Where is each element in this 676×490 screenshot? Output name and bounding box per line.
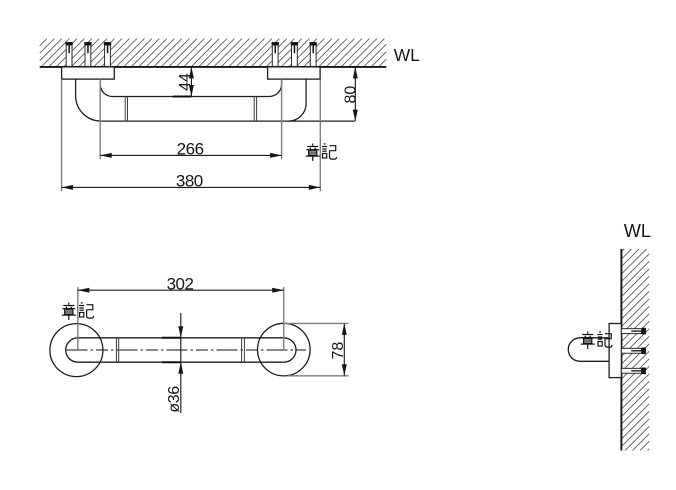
dimension 80 <box>342 67 359 121</box>
svg-text:302: 302 <box>167 274 194 293</box>
left outer edge + bend <box>76 79 102 121</box>
centerline <box>67 349 307 351</box>
tube (front view, capsule) <box>66 338 296 362</box>
right inner edge + bend <box>269 79 281 96</box>
dimension 44 <box>177 67 194 97</box>
joint ticks left <box>125 97 127 122</box>
grab bar tube outline (top view) <box>76 79 355 121</box>
left inner edge + bend <box>100 79 112 96</box>
bottom edge with 80-dim extension <box>101 120 355 122</box>
dimension 380 <box>62 79 321 191</box>
brand text: zhang-ji (drawing 3) <box>581 332 612 349</box>
brand text: zhang-ji (drawing 2) <box>62 303 94 320</box>
dimension 266 <box>100 79 281 159</box>
tube edge thick segment near 44 dim <box>173 96 192 98</box>
dimension 78 <box>284 323 349 375</box>
wall line (side view) <box>620 249 622 451</box>
svg-text:WL: WL <box>394 45 420 65</box>
joint ticks right (front view) <box>242 338 245 362</box>
svg-text:WL: WL <box>624 221 651 241</box>
joint ticks right <box>254 97 256 122</box>
svg-text:ø36: ø36 <box>166 386 183 413</box>
wall hatch band <box>40 39 387 67</box>
left flange plate <box>62 67 115 79</box>
right flange circle <box>258 323 311 376</box>
svg-text:44: 44 <box>177 73 194 91</box>
wall line WL <box>40 66 387 68</box>
screws left flange <box>65 42 72 66</box>
dimension 302 <box>78 274 284 350</box>
right outer edge + bend <box>289 79 307 121</box>
left flange circle <box>50 324 103 377</box>
right flange plate <box>268 67 321 79</box>
brand text: zhang-ji (drawing 1) <box>306 144 337 161</box>
wall hatch band (side view) <box>621 249 649 450</box>
svg-text:78: 78 <box>330 342 347 360</box>
top edge <box>113 96 270 98</box>
svg-text:266: 266 <box>177 140 204 159</box>
bar loop (side view) <box>568 338 609 362</box>
joint ticks left (front view) <box>116 338 118 362</box>
tube edge thick segments near diameter dim <box>162 337 181 339</box>
svg-text:380: 380 <box>176 172 203 191</box>
screws (side view) <box>621 328 646 335</box>
flange plate (side view) <box>609 324 621 378</box>
dimension diameter 36 <box>166 313 183 413</box>
svg-text:80: 80 <box>342 86 359 104</box>
screws right flange <box>272 42 279 66</box>
